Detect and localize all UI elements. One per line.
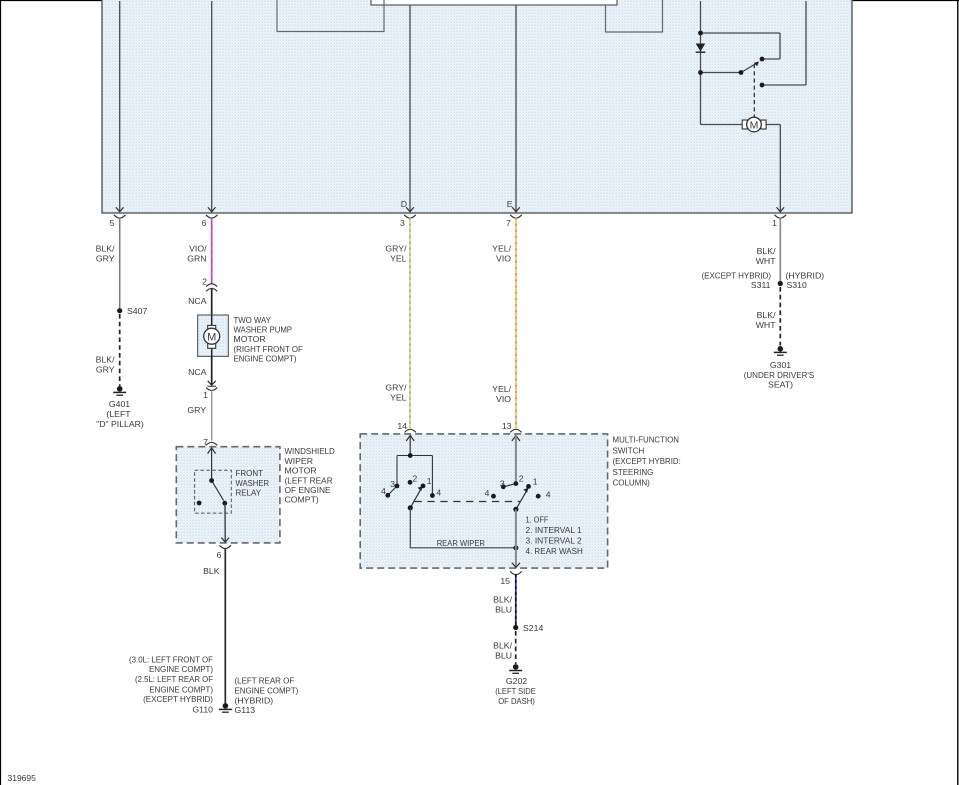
svg-text:1. OFF: 1. OFF — [526, 515, 549, 525]
svg-text:(RIGHT FRONT OF: (RIGHT FRONT OF — [234, 344, 303, 354]
svg-text:GRY: GRY — [96, 364, 115, 374]
svg-text:(HYBRID): (HYBRID) — [786, 270, 825, 280]
svg-text:ENGINE COMPT): ENGINE COMPT) — [149, 664, 213, 674]
svg-text:2: 2 — [413, 473, 418, 483]
svg-text:3: 3 — [390, 479, 395, 489]
svg-text:14: 14 — [397, 421, 407, 431]
svg-text:STEERING: STEERING — [613, 467, 654, 477]
svg-text:4: 4 — [381, 486, 386, 496]
svg-text:G401: G401 — [109, 399, 130, 409]
svg-text:BLK/: BLK/ — [493, 595, 512, 605]
svg-text:WHT: WHT — [756, 320, 776, 330]
svg-text:OF DASH): OF DASH) — [498, 696, 535, 706]
svg-text:1: 1 — [533, 477, 538, 487]
svg-text:VIO: VIO — [496, 394, 511, 404]
svg-text:WASHER PUMP: WASHER PUMP — [234, 325, 293, 335]
svg-text:4: 4 — [485, 488, 490, 498]
svg-text:M: M — [750, 119, 759, 131]
svg-text:2: 2 — [519, 473, 524, 483]
svg-text:FRONT: FRONT — [236, 468, 264, 478]
svg-text:4: 4 — [436, 487, 441, 497]
svg-text:(EXCEPT HYBRID:: (EXCEPT HYBRID: — [613, 456, 681, 466]
svg-text:BLU: BLU — [495, 650, 512, 660]
svg-text:M: M — [207, 331, 216, 343]
svg-text:COMPT): COMPT) — [285, 495, 319, 505]
svg-text:GRY/: GRY/ — [385, 383, 407, 393]
svg-text:(UNDER DRIVER'S: (UNDER DRIVER'S — [744, 370, 815, 380]
svg-text:G301: G301 — [770, 360, 791, 370]
svg-text:S310: S310 — [787, 280, 807, 290]
svg-text:2: 2 — [202, 276, 207, 286]
svg-text:NCA: NCA — [188, 367, 207, 377]
svg-text:MOTOR: MOTOR — [234, 334, 266, 344]
svg-text:SWITCH: SWITCH — [613, 445, 645, 455]
svg-text:S407: S407 — [127, 306, 147, 316]
svg-text:REAR WIPER: REAR WIPER — [437, 538, 485, 548]
svg-text:E: E — [507, 199, 513, 209]
svg-text:7: 7 — [203, 437, 208, 447]
svg-text:(HYBRID): (HYBRID) — [235, 695, 274, 705]
svg-text:(EXCEPT HYBRID): (EXCEPT HYBRID) — [143, 694, 213, 704]
svg-text:ENGINE COMPT): ENGINE COMPT) — [235, 685, 299, 695]
svg-text:3: 3 — [500, 478, 505, 488]
svg-text:5: 5 — [110, 218, 115, 228]
svg-text:YEL/: YEL/ — [492, 384, 511, 394]
svg-text:YEL/: YEL/ — [492, 243, 511, 253]
svg-text:BLK/: BLK/ — [493, 640, 512, 650]
svg-text:TWO WAY: TWO WAY — [234, 315, 272, 325]
svg-text:(3.0L: LEFT FRONT OF: (3.0L: LEFT FRONT OF — [129, 654, 213, 664]
svg-text:BLK/: BLK/ — [757, 246, 776, 256]
svg-text:3. INTERVAL 2: 3. INTERVAL 2 — [526, 536, 582, 546]
svg-text:1: 1 — [427, 476, 432, 486]
svg-text:RELAY: RELAY — [236, 488, 262, 498]
svg-text:WASHER: WASHER — [236, 478, 270, 488]
svg-text:BLK/: BLK/ — [96, 354, 115, 364]
svg-text:NCA: NCA — [188, 296, 207, 306]
svg-text:ENGINE COMPT): ENGINE COMPT) — [234, 354, 297, 364]
svg-text:G110: G110 — [192, 705, 213, 715]
svg-text:G202: G202 — [506, 676, 527, 686]
svg-text:2. INTERVAL 1: 2. INTERVAL 1 — [526, 525, 582, 535]
svg-text:7: 7 — [506, 218, 511, 228]
svg-text:1: 1 — [203, 390, 208, 400]
svg-text:S311: S311 — [751, 280, 771, 290]
svg-text:4: 4 — [546, 489, 551, 499]
svg-text:1: 1 — [772, 218, 777, 228]
svg-text:(LEFT REAR: (LEFT REAR — [285, 475, 333, 485]
svg-text:(LEFT: (LEFT — [106, 409, 131, 419]
svg-text:319695: 319695 — [8, 773, 37, 783]
svg-text:GRY/: GRY/ — [385, 243, 407, 253]
svg-text:OF ENGINE: OF ENGINE — [285, 485, 331, 495]
svg-text:13: 13 — [502, 421, 512, 431]
svg-text:VIO: VIO — [496, 253, 511, 263]
svg-text:WHT: WHT — [756, 256, 776, 266]
svg-text:15: 15 — [500, 576, 510, 586]
svg-text:MULTI-FUNCTION: MULTI-FUNCTION — [613, 435, 680, 445]
svg-text:3: 3 — [400, 218, 405, 228]
svg-text:(LEFT REAR OF: (LEFT REAR OF — [235, 675, 295, 685]
svg-text:WIPER: WIPER — [285, 456, 313, 466]
svg-text:(2.5L: LEFT REAR OF: (2.5L: LEFT REAR OF — [135, 674, 213, 684]
svg-text:GRY: GRY — [187, 405, 206, 415]
svg-text:YEL: YEL — [390, 253, 407, 263]
svg-text:SEAT): SEAT) — [768, 379, 793, 389]
svg-text:"D" PILLAR): "D" PILLAR) — [96, 419, 144, 429]
svg-text:COLUMN): COLUMN) — [613, 478, 650, 488]
svg-text:BLK/: BLK/ — [757, 310, 776, 320]
svg-text:G113: G113 — [235, 705, 256, 715]
svg-text:4. REAR WASH: 4. REAR WASH — [526, 546, 583, 556]
svg-text:VIO/: VIO/ — [189, 243, 207, 253]
svg-text:WINDSHIELD: WINDSHIELD — [285, 446, 335, 456]
svg-text:BLK/: BLK/ — [96, 243, 115, 253]
svg-text:(LEFT SIDE: (LEFT SIDE — [495, 686, 536, 696]
svg-text:(EXCEPT HYBRID): (EXCEPT HYBRID) — [702, 270, 772, 280]
svg-text:GRY: GRY — [96, 253, 115, 263]
svg-text:ENGINE COMPT): ENGINE COMPT) — [149, 684, 213, 694]
svg-text:YEL: YEL — [390, 393, 407, 403]
svg-text:S214: S214 — [523, 623, 543, 633]
svg-text:BLK: BLK — [203, 566, 220, 576]
svg-text:BLU: BLU — [495, 605, 512, 615]
svg-text:6: 6 — [202, 218, 207, 228]
svg-text:6: 6 — [217, 550, 222, 560]
svg-text:MOTOR: MOTOR — [285, 466, 317, 476]
svg-text:GRN: GRN — [187, 253, 206, 263]
